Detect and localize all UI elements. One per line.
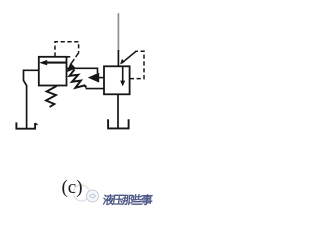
wire: V2 bottom to tank [117,94,119,128]
arrow inside V1 (points left) [45,62,67,64]
svg-text:液压那些事: 液压那些事 [102,193,154,206]
svg-text:(c): (c) [61,177,82,198]
faint stamp circle [74,185,90,201]
wire: main supply line (gray upper part) [117,13,119,52]
tank T1 (bottom left) [16,122,35,128]
arrowhead of pilot (points down-left at V1) [67,63,76,72]
wire: main supply line lower black part [117,50,119,66]
top edge overshoot [67,56,71,58]
pilot diagonal to main line [122,51,137,63]
check triangle (filled, points left) [88,73,99,82]
wire: lower link to V2 [86,88,104,90]
small arrowhead at junction [120,59,125,65]
pilot dashed line from V1 top [55,42,79,57]
pilot dashed line right side of V2 [130,51,144,78]
stub to V2 left port [98,77,104,79]
wire: V1 right port line [67,68,98,73]
valve V2 body [104,66,130,94]
tank T1 hook [35,123,38,125]
tank T2 (bottom right) [108,119,129,128]
pilot dashed diagonal [71,53,79,65]
spring S2 diagonal between valves [70,70,87,88]
relief valve V1 body [39,57,67,86]
wire: V1 left port to tank [24,70,39,128]
triangle base bar [97,73,99,82]
spring S1 below V1 [46,86,57,107]
watermark logo circle [87,190,99,202]
arrow inside V2 (points down) [122,67,124,82]
